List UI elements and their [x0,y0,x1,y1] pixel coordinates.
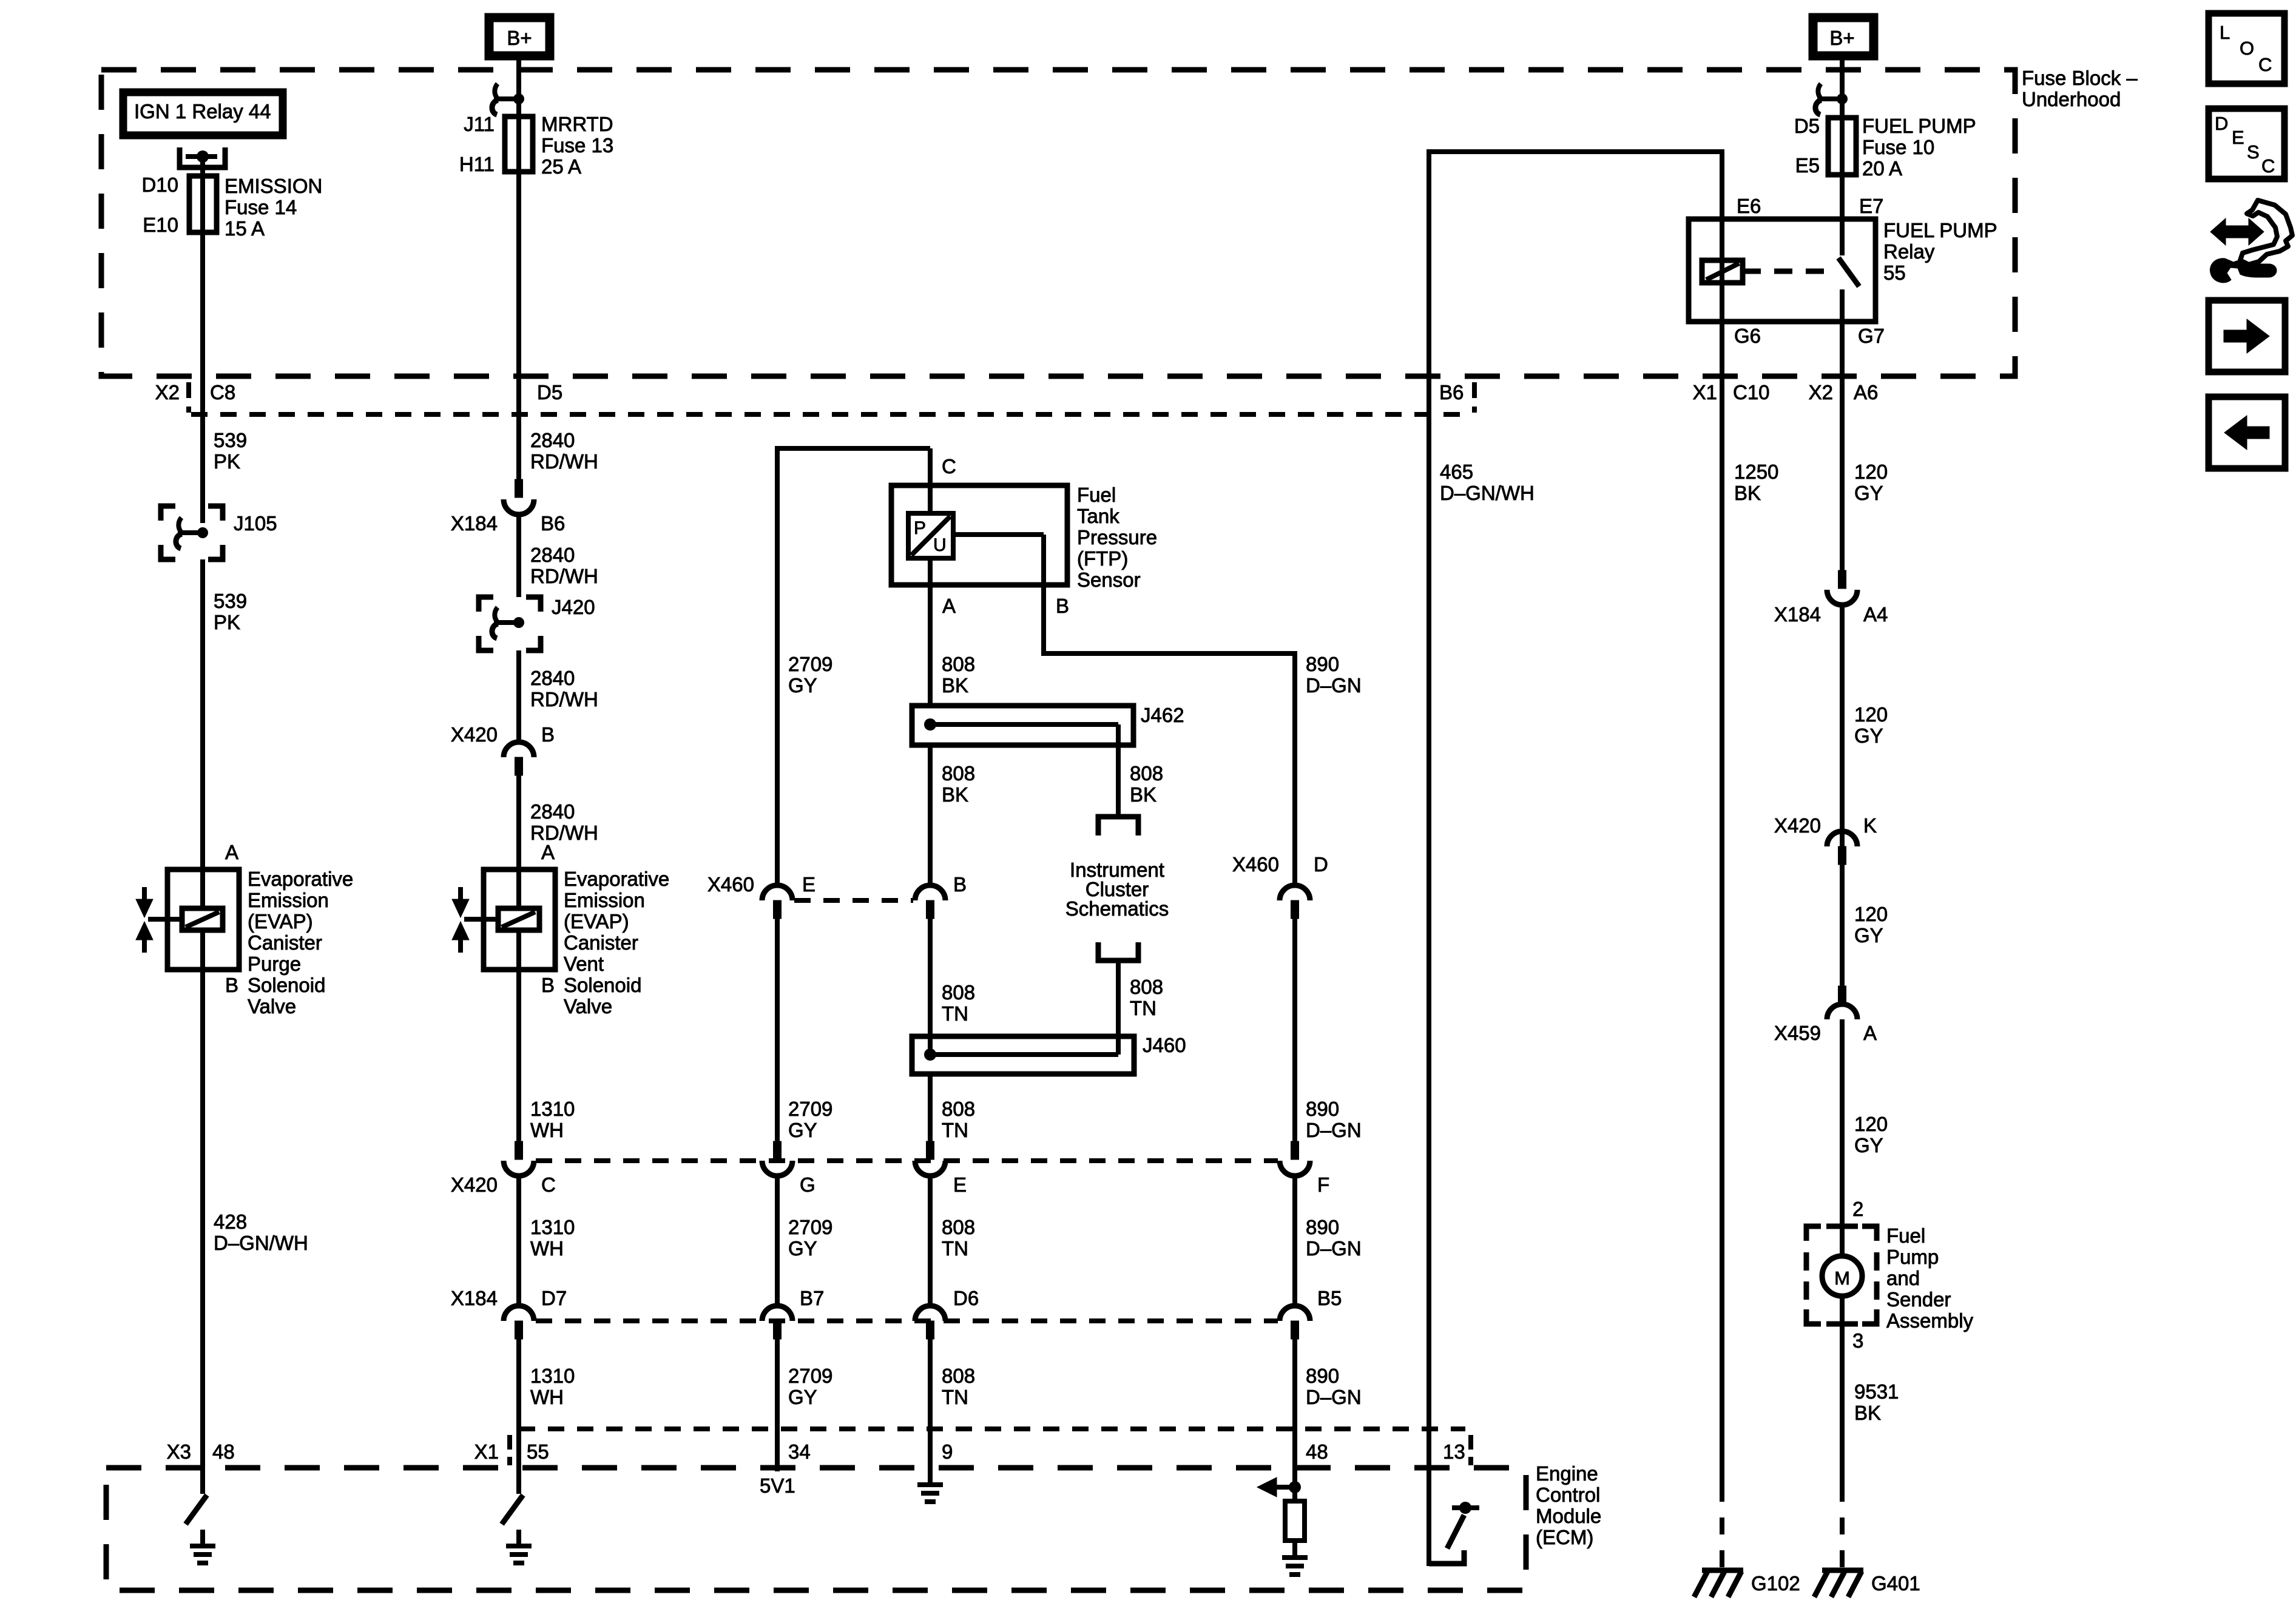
connector X460 B male bar [927,900,934,919]
wire 890 D-GN X420F to X184 B5 [1292,1176,1297,1307]
svg-text:Pump: Pump [1886,1246,1939,1268]
tick between X1 and 55 [507,1435,512,1465]
connector X184 B7 male bar [774,1321,782,1339]
back arrow icon box [2209,397,2285,468]
connector X184 B7 female dome [762,1306,792,1321]
svg-text:(ECM): (ECM) [1536,1526,1593,1548]
svg-text:B: B [541,723,555,746]
ground G401 chassis symbol [1822,1568,1863,1573]
svg-text:PK: PK [214,450,240,473]
svg-text:Canister: Canister [248,931,322,954]
svg-text:E: E [2232,127,2244,148]
ECM internal ground pin 48 [1282,1555,1308,1560]
svg-text:539: 539 [214,590,247,612]
svg-text:TN: TN [942,1002,968,1025]
connector X460 B female dome [915,885,945,900]
B+ battery feed symbol (left) [489,18,550,56]
wire 2709 GY X420G to X184 B7 [775,1176,780,1307]
wire 2709 GY B7 to ECM pin 34 [775,1339,780,1471]
ECM switch pin13 elbow [1429,1550,1464,1564]
svg-text:Valve: Valve [564,995,612,1018]
svg-text:B: B [953,873,967,896]
svg-text:L: L [2220,22,2230,43]
wire 2840 X420B to EVAP vent valve [516,775,521,869]
svg-text:D: D [2215,113,2228,134]
relay coil [1720,219,1724,322]
svg-text:B5: B5 [1317,1287,1342,1309]
fuel pump motor M circle [1822,1256,1862,1296]
svg-text:TN: TN [942,1237,968,1260]
svg-text:1250: 1250 [1734,461,1778,483]
wire 5V1 horizontal top [777,446,930,451]
svg-text:Purge: Purge [248,953,301,975]
connector X184 B5 female dome [1280,1306,1310,1321]
connector X420 G female cup [762,1161,792,1176]
svg-text:48: 48 [1306,1440,1328,1463]
svg-text:Fuel: Fuel [1077,484,1116,506]
svg-text:(EVAP): (EVAP) [248,910,313,933]
connector X420 C male bar [515,1141,523,1160]
svg-text:H11: H11 [459,153,495,175]
svg-text:O: O [2240,38,2254,59]
wire 2840 B6 to J420 [516,513,521,597]
svg-text:808: 808 [942,653,975,675]
connector X184 D7 female dome [504,1306,534,1321]
svg-text:Sensor: Sensor [1077,569,1141,591]
svg-text:Fuse Block –: Fuse Block – [2022,67,2138,89]
svg-text:34: 34 [788,1440,811,1463]
wire 1310 WH D7 to ECM pin 55 [516,1339,521,1468]
svg-text:808: 808 [942,762,975,785]
svg-text:48: 48 [212,1440,235,1463]
wire 120 GY X459 to pump pin 2 [1840,1019,1845,1226]
connector X420 E female cup [915,1161,945,1176]
wire 808 TN stub to J460 [1116,960,1121,1055]
EVAP purge valve coil [200,869,205,911]
tick between X2 and C8 [186,382,191,413]
svg-text:X460: X460 [1232,853,1279,876]
connector X460 E male bar [774,900,782,919]
svg-text:Emission: Emission [564,889,645,911]
svg-text:GY: GY [1854,724,1883,747]
connector X184 D6 female dome [915,1306,945,1321]
svg-text:465: 465 [1440,461,1473,483]
svg-text:1310: 1310 [530,1098,575,1120]
svg-text:A: A [225,841,238,863]
svg-text:Canister: Canister [564,931,638,954]
wire 539 PK fuse to J105 [200,376,205,523]
wire 539 PK J105 to EVAP purge valve [200,559,205,869]
svg-text:B: B [1056,595,1069,617]
svg-text:and: and [1886,1267,1920,1289]
svg-text:428: 428 [214,1210,247,1233]
svg-text:E: E [953,1173,967,1196]
svg-text:5V1: 5V1 [760,1474,795,1497]
fuel tank pressure sensor box [891,485,1067,585]
svg-text:(FTP): (FTP) [1077,547,1128,570]
wire 808 TN X420E to X184 D6 [928,1176,933,1307]
connector X184 A4 female cup [1827,590,1857,605]
svg-text:Relay: Relay [1883,240,1935,263]
svg-text:Vent: Vent [564,953,604,975]
wire 808 TN J460 to X420 E [928,1075,933,1160]
wire 808 TN D6 to ECM pin 9 [928,1339,933,1485]
svg-text:9: 9 [942,1440,953,1463]
J462 junction dot [924,718,936,731]
svg-text:F: F [1317,1173,1329,1196]
connector X420 F female cup [1280,1161,1310,1176]
fuse 14 EMISSION element [189,176,217,232]
svg-text:U: U [933,535,947,555]
svg-text:G7: G7 [1858,325,1885,347]
svg-text:GY: GY [788,1119,817,1141]
ECM driver sense arrow [1268,1485,1295,1490]
svg-text:C: C [942,455,956,478]
svg-text:Emission: Emission [248,889,329,911]
connector X420 K female dome [1827,831,1857,846]
svg-text:TN: TN [942,1386,968,1408]
wire 808 BK J462 to X460 B [928,745,933,886]
svg-text:Fuse 13: Fuse 13 [541,134,613,157]
relay output bracket [180,147,225,167]
wire 890 D-GN B5 to ECM pin 48 [1292,1339,1297,1487]
wire through fuse 14 [200,176,205,376]
wire 2840 fuse13 to X184 B6 [516,376,521,481]
svg-text:J105: J105 [234,512,277,535]
svg-text:B6: B6 [541,512,565,535]
instrument cluster stub upper [1098,817,1138,836]
next arrow icon box [2209,300,2285,372]
J105 in-line connector dashed box [161,506,175,521]
svg-text:BK: BK [1854,1402,1881,1424]
connector X184 D7 male bar [515,1321,523,1339]
svg-text:120: 120 [1854,703,1888,726]
svg-text:890: 890 [1306,653,1339,675]
svg-text:2840: 2840 [530,667,575,689]
wire E6 horizontal from node to relay [1429,149,1722,154]
wire 1310 WH valve to X420 C [516,970,521,1160]
svg-text:B+: B+ [507,27,532,49]
svg-text:Assembly: Assembly [1886,1309,1974,1332]
svg-text:Fuel: Fuel [1886,1224,1925,1247]
wire relay to Emission fuse [200,157,205,179]
svg-text:RD/WH: RD/WH [530,688,598,711]
svg-text:X1: X1 [474,1440,499,1463]
svg-text:G401: G401 [1871,1572,1920,1595]
wire 120 GY relay G7 to pump [1840,376,1845,572]
svg-text:X420: X420 [451,1173,498,1196]
LOC icon box [2209,13,2284,84]
EVAP vent valve seat lead [464,917,499,922]
svg-text:808: 808 [942,981,975,1004]
instrument cluster stub lower [1098,942,1138,960]
svg-text:(EVAP): (EVAP) [564,910,629,933]
connector X420 G male bar [774,1141,782,1160]
wire 808 TN X460B to J460 [928,919,933,1056]
wire through fuse 10 [1840,120,1845,222]
J105 clip and junction dot [178,518,181,532]
svg-text:2709: 2709 [788,653,832,675]
wire 120 GY A4 to X420 K [1840,605,1845,846]
wire G6 down from relay [1720,322,1724,376]
svg-text:X2: X2 [155,381,180,403]
svg-text:2840: 2840 [530,544,575,566]
svg-text:X184: X184 [451,512,498,535]
svg-text:25 A: 25 A [541,155,581,178]
svg-text:C8: C8 [210,381,235,403]
svg-text:A4: A4 [1863,603,1888,626]
svg-text:2709: 2709 [788,1365,832,1387]
engine control module dashed box [106,1468,1526,1590]
wire 1310 WH X420C to X184 D7 [516,1176,521,1307]
svg-text:3: 3 [1852,1329,1863,1352]
svg-text:2: 2 [1852,1198,1863,1220]
svg-text:X3: X3 [167,1440,191,1463]
connector X184 B5 male bar [1291,1321,1299,1339]
svg-text:FUEL PUMP: FUEL PUMP [1862,115,1976,137]
svg-text:K: K [1863,814,1877,837]
EVAP vent valve coil [516,869,521,911]
svg-text:2709: 2709 [788,1216,832,1238]
svg-text:B: B [225,974,238,996]
connector X184 D6 male bar [927,1321,934,1339]
wire 2709 GY down to X460 E [775,446,780,886]
connector X184 B6 female cup [504,499,534,515]
svg-text:D6: D6 [953,1287,979,1309]
svg-text:C: C [2261,155,2275,177]
svg-text:D–GN/WH: D–GN/WH [1440,482,1535,504]
connector X420 B female dome [504,742,534,757]
tick right of B6 [1472,382,1477,413]
X460 dashed link E to B [794,898,913,903]
fuse clip junction at J11 [495,84,498,98]
svg-text:X420: X420 [451,723,498,746]
B+ battery feed symbol (right) [1813,18,1874,56]
connector X460 D female dome [1280,885,1310,900]
svg-text:120: 120 [1854,1113,1888,1135]
svg-text:FUEL PUMP: FUEL PUMP [1883,219,1997,241]
svg-text:55: 55 [1883,262,1906,284]
ECM internal ground pin 9 [917,1482,943,1487]
svg-text:Solenoid: Solenoid [564,974,641,996]
svg-text:D–GN: D–GN [1306,1386,1362,1408]
svg-text:2709: 2709 [788,1098,832,1120]
svg-text:GY: GY [788,674,817,697]
svg-text:RD/WH: RD/WH [530,450,598,473]
svg-text:G102: G102 [1751,1572,1800,1595]
svg-text:WH: WH [530,1386,564,1408]
connector X459 A female dome [1827,1004,1857,1019]
connector X2 dotted pass-through line [191,412,1473,417]
svg-text:X184: X184 [451,1287,498,1309]
EVAP vent valve body [484,869,555,970]
svg-text:A: A [942,595,956,617]
EVAP purge valve seat symbol [142,887,147,899]
wire 1250 BK relay G6 to G102 [1720,376,1724,1485]
svg-text:Tank: Tank [1077,505,1119,527]
svg-text:C: C [2258,54,2272,75]
relay switch blade [1838,258,1859,286]
wire 9531 BK pump to G401 [1840,1324,1845,1485]
svg-text:B: B [541,974,555,996]
svg-text:Module: Module [1536,1505,1601,1527]
J462 splice pack box [912,706,1133,745]
svg-text:55: 55 [527,1440,549,1463]
J460 splice pack box [912,1036,1134,1074]
svg-text:X420: X420 [1774,814,1821,837]
svg-text:A6: A6 [1854,381,1878,403]
svg-text:B7: B7 [800,1287,824,1309]
ground G102 chassis symbol [1702,1568,1743,1573]
connector X460 D male bar [1291,900,1299,919]
X420 connector row dashed line [536,1158,1278,1163]
wire 1250 BK dashed segment [1720,1485,1724,1569]
wire 428 D-GN/WH valve to ECM [200,970,205,1468]
svg-text:890: 890 [1306,1216,1339,1238]
connector X420 C female cup [504,1161,534,1176]
ECM internal ground for pin 48 X3 [200,1530,205,1546]
svg-text:MRRTD: MRRTD [541,113,613,135]
svg-text:G6: G6 [1734,325,1761,347]
svg-text:Control: Control [1536,1484,1600,1506]
svg-text:D5: D5 [537,381,562,403]
wire G7 down from relay [1840,322,1845,376]
svg-text:G: G [800,1173,815,1196]
svg-text:808: 808 [1130,762,1163,785]
svg-text:P: P [914,518,926,538]
wire E6 down to relay [1720,149,1724,222]
svg-text:120: 120 [1854,461,1888,483]
svg-text:TN: TN [1130,997,1156,1019]
svg-text:GY: GY [788,1237,817,1260]
fuel pump assembly dashed box [1806,1226,1821,1241]
svg-text:BK: BK [942,783,968,806]
svg-text:B+: B+ [1829,27,1854,49]
svg-text:2840: 2840 [530,429,575,451]
svg-text:9531: 9531 [1854,1380,1899,1403]
wire resistor to ground [1292,1541,1297,1558]
connector X460 E female dome [762,885,792,900]
svg-text:J11: J11 [464,113,495,135]
ECM low side switch pin 48 X3 [200,1468,205,1494]
svg-text:808: 808 [942,1365,975,1387]
wire 808 BK C pin down [928,448,933,516]
svg-text:PK: PK [214,611,240,633]
svg-text:539: 539 [214,429,247,451]
wire B+ to fuse 10 [1840,56,1845,120]
relay coil to switch dashed link [1743,269,1831,274]
svg-text:808: 808 [1130,976,1163,998]
wire 808 BK A pin to J462 [928,558,933,706]
svg-text:GY: GY [788,1386,817,1408]
wire 890 D-GN down from FTP B [1292,651,1297,886]
svg-text:808: 808 [942,1216,975,1238]
J420 in-line connector dashed box [479,597,493,612]
svg-text:RD/WH: RD/WH [530,565,598,587]
svg-text:X184: X184 [1774,603,1821,626]
wire 2840 J420 to X420 B [516,650,521,743]
svg-text:BK: BK [1734,482,1761,504]
connector X184 A4 male bar [1838,570,1846,589]
svg-text:BK: BK [942,674,968,697]
svg-text:2840: 2840 [530,800,575,823]
svg-text:890: 890 [1306,1098,1339,1120]
svg-text:S: S [2247,141,2260,163]
svg-text:RD/WH: RD/WH [530,822,598,844]
fuse block underhood dashed boundary box [101,70,2015,376]
wire 2709 GY X460E to X420 G [775,919,780,1160]
svg-text:IGN 1 Relay 44: IGN 1 Relay 44 [134,100,271,123]
svg-text:Underhood: Underhood [2022,88,2121,110]
wire FTP signal B out [953,532,1044,537]
svg-text:Schematics: Schematics [1065,897,1169,920]
svg-text:Evaporative: Evaporative [564,868,669,890]
X184 connector row dashed line [536,1318,1278,1323]
svg-text:X459: X459 [1774,1022,1821,1044]
svg-text:D10: D10 [141,174,178,196]
svg-text:A: A [541,841,555,863]
svg-text:13: 13 [1443,1440,1465,1463]
wire B+ to fuse 13 [516,56,521,119]
svg-text:E6: E6 [1737,195,1761,217]
ECM driver node dot [1289,1481,1301,1493]
wire into pump motor [1840,1226,1845,1258]
svg-text:808: 808 [942,1098,975,1120]
svg-text:GY: GY [1854,1134,1883,1156]
svg-text:X1: X1 [1693,381,1717,403]
svg-text:A: A [1863,1022,1877,1044]
svg-text:Sender: Sender [1886,1288,1951,1311]
wire out of pump motor [1840,1296,1845,1324]
svg-text:15 A: 15 A [225,217,265,240]
connector X420 B male bar [515,757,523,775]
relay output bar and junction dot [186,154,217,159]
svg-text:C10: C10 [1733,381,1770,403]
svg-text:1310: 1310 [530,1216,575,1238]
svg-text:D7: D7 [541,1287,567,1309]
svg-text:E10: E10 [143,214,178,236]
EVAP purge valve seat lead [148,917,183,922]
EVAP vent valve seat symbol [458,887,463,899]
svg-text:Pressure: Pressure [1077,526,1157,549]
svg-text:Fuse 14: Fuse 14 [225,196,297,218]
svg-text:E: E [802,873,815,896]
svg-text:EMISSION: EMISSION [225,175,322,197]
svg-text:BK: BK [1130,783,1156,806]
svg-text:M: M [1834,1268,1850,1289]
connector X420 F male bar [1291,1141,1299,1160]
ECM switch pin13 blade [1447,1515,1464,1548]
svg-text:D5: D5 [1794,115,1820,137]
svg-text:20 A: 20 A [1862,157,1902,180]
vehicle with wrench icon [2240,200,2292,265]
EVAP purge valve body [167,869,239,970]
fuse 10 FUEL PUMP element [1828,118,1856,175]
svg-text:B6: B6 [1439,381,1464,403]
svg-text:D–GN/WH: D–GN/WH [214,1232,308,1254]
svg-text:D–GN: D–GN [1306,1237,1362,1260]
IGN 1 Relay 44 box [123,92,283,135]
svg-text:120: 120 [1854,903,1888,925]
svg-text:Fuse 10: Fuse 10 [1862,136,1934,158]
fuse 13 MRRTD element [505,116,533,172]
svg-text:D: D [1314,853,1328,876]
DESC icon box [2209,109,2284,179]
svg-text:J420: J420 [552,596,595,618]
svg-text:E7: E7 [1859,195,1883,217]
wire 890 D-GN X460D to X420 F [1292,919,1297,1160]
svg-text:WH: WH [530,1237,564,1260]
